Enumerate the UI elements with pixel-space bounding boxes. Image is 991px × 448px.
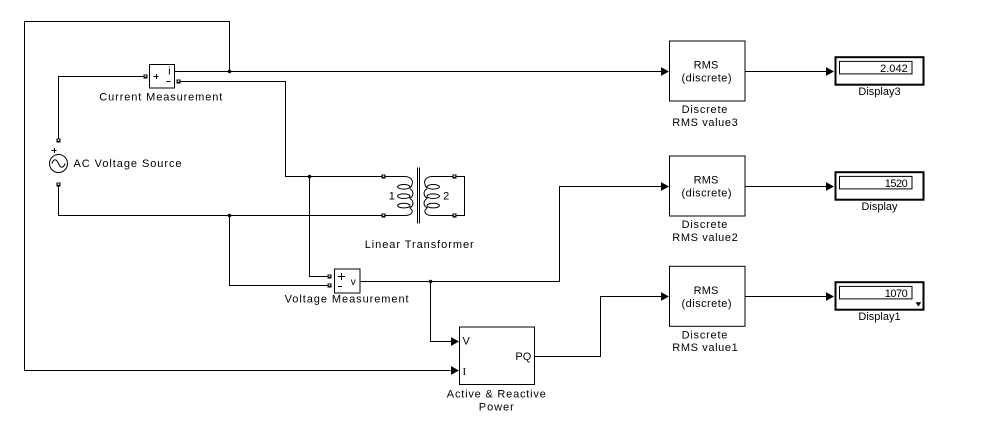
svg-text:1070: 1070 [885,288,908,300]
arrowhead into V input [451,337,459,346]
svg-text:i: i [168,66,170,78]
svg-text:Voltage Measurement: Voltage Measurement [285,294,409,306]
arrowhead into RMS value3 [661,67,669,76]
arrowhead into Display1 [826,292,834,301]
wire: winding2 short circuit [457,177,465,216]
wire: RMS value2 to Display [745,186,826,188]
svg-text:PQ: PQ [515,351,531,363]
CM - port [177,80,181,84]
AC voltage source circle [50,148,68,173]
wire: CM - port right, down, right to transformer winding1 top [181,82,382,177]
junction: i signal branch [228,70,232,74]
wire: AC+ up and right to Current Measurement + [59,77,144,139]
wire: transformer top node down to Voltage Measurement + [310,177,328,277]
svg-text:1: 1 [389,191,395,203]
arrowhead into RMS value1 [661,292,669,301]
svg-text:RMS: RMS [694,285,719,297]
svg-text:Current Measurement: Current Measurement [99,92,222,104]
svg-text:v: v [351,277,356,288]
Display1 overflow triangle [916,302,922,306]
arrowhead into Display3 [826,67,834,76]
wire: row1 i output to Discrete RMS value3 [175,71,661,73]
svg-text:AC Voltage Source: AC Voltage Source [74,158,182,170]
VM minus glyph [338,286,342,288]
arrowhead into RMS value2 [661,182,669,191]
svg-text:V: V [463,336,471,348]
svg-text:(discrete): (discrete) [682,298,732,310]
wire: VM output branch down to Active & Reactive Power V input [431,282,452,342]
svg-text:Discrete: Discrete [682,104,728,116]
VM plus glyph [338,273,345,280]
arrowhead into Display [826,182,834,191]
plus polarity mark [52,148,57,153]
CM minus glyph [167,81,171,83]
svg-text:Display1: Display1 [858,311,900,323]
svg-text:RMS: RMS [694,60,719,72]
Display1 value field [840,286,913,299]
CM + input port [144,75,148,79]
svg-text:(discrete): (discrete) [682,188,732,200]
transformer winding1 bottom port [382,214,386,218]
wire: AC - down and right to transformer winding1 bottom [59,187,382,216]
wire: AC bottom node down to Voltage Measurement - [230,216,328,286]
current measurement block CM [150,65,175,89]
linear transformer winding 2 (right) [424,177,453,216]
wire: current signal loop (i output up over top to I input) [25,22,451,371]
AC source - port [57,183,61,187]
wire: RMS value1 to Display1 [745,296,826,298]
display block Display [836,172,924,200]
transformer core lines [418,168,420,224]
svg-text:Power: Power [479,401,514,413]
discrete RMS block RMS value3 [670,41,746,101]
svg-text:Discrete: Discrete [682,329,728,341]
display block Display1 [836,282,924,310]
junction: AC bottom node [228,214,232,218]
voltage measurement block VM [335,269,361,293]
Display value field [840,176,913,189]
transformer winding2 bottom port [453,214,457,218]
wire: PQ output right, up, right to Discrete RMS value1 [535,297,662,357]
discrete RMS block RMS value2 [670,156,746,216]
svg-text:2.042: 2.042 [880,63,908,75]
arrowhead into I input [451,366,459,375]
junction: VM output branch [429,280,433,284]
transformer winding1 top port [382,175,386,179]
linear transformer winding 1 (left) [384,177,413,216]
svg-text:RMS value1: RMS value1 [672,342,738,354]
svg-text:Active & Reactive: Active & Reactive [447,389,546,401]
svg-text:2: 2 [443,191,449,203]
svg-text:Display3: Display3 [858,86,900,98]
AC source + port [57,139,61,143]
transformer winding2 top port [453,175,457,179]
VM - input port [328,284,332,288]
wire: VM v output right with branch [360,187,661,282]
svg-text:I: I [463,366,467,378]
svg-text:RMS value2: RMS value2 [672,232,738,244]
svg-text:Display: Display [861,201,898,213]
svg-text:RMS value3: RMS value3 [672,117,738,129]
display block Display3 [836,57,924,84]
active and reactive power block [460,327,535,385]
svg-text:(discrete): (discrete) [682,73,732,85]
svg-text:Linear Transformer: Linear Transformer [365,239,474,251]
sine wave inside source [52,160,65,168]
CM plus glyph [154,74,159,79]
svg-text:1520: 1520 [885,178,908,190]
discrete RMS block RMS value1 [670,266,746,326]
junction: transformer top node [308,175,312,179]
VM + input port [328,275,332,279]
svg-text:RMS: RMS [694,175,719,187]
Display3 value field [840,61,913,74]
svg-text:Discrete: Discrete [682,219,728,231]
wire: RMS value3 to Display3 [745,71,826,73]
